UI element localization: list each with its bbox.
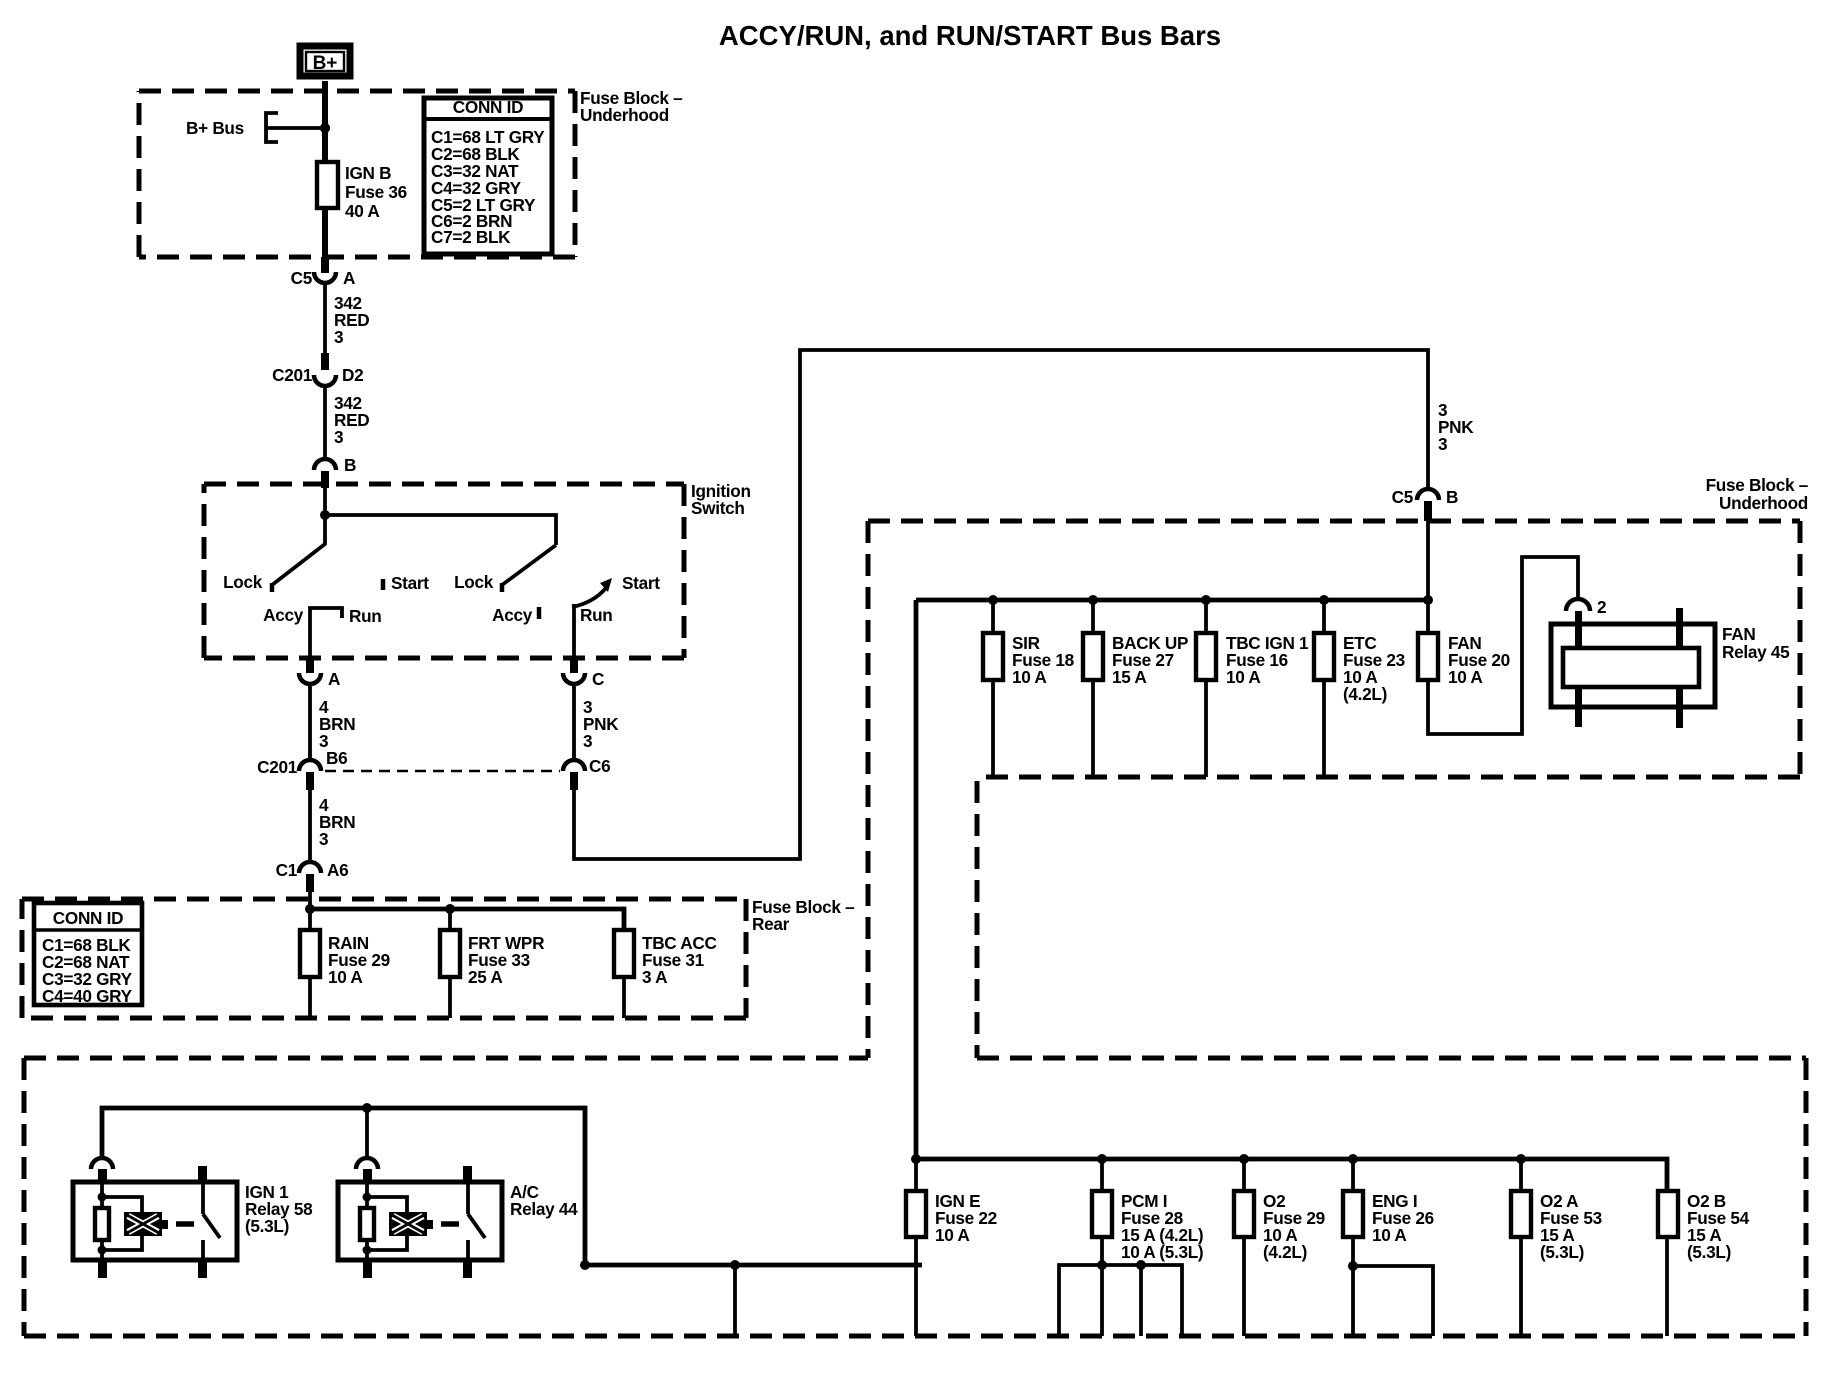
- node fuse20 tap: [1423, 595, 1433, 605]
- svg-text:2: 2: [1597, 597, 1606, 617]
- svg-text:(4.2L): (4.2L): [1263, 1242, 1307, 1262]
- svg-text:10 A: 10 A: [1448, 667, 1482, 687]
- svg-text:10 A: 10 A: [1012, 667, 1046, 687]
- wire 4 BRN 3 lower: [308, 790, 312, 862]
- connector B ignition switch: [314, 455, 356, 488]
- svg-text:Relay 45: Relay 45: [1722, 642, 1790, 662]
- svg-text:3 A: 3 A: [642, 967, 667, 987]
- svg-text:10 A (5.3L): 10 A (5.3L): [1121, 1242, 1203, 1262]
- svg-text:Run: Run: [580, 605, 613, 625]
- Lock terminal 2: [500, 583, 505, 592]
- node eng tap: [1348, 1154, 1358, 1164]
- svg-text:B: B: [344, 455, 356, 475]
- wire Run to C: [572, 604, 576, 658]
- svg-text:D2: D2: [342, 365, 363, 385]
- C201 connector dashed line: [325, 770, 560, 773]
- node switch common: [320, 510, 330, 520]
- svg-text:10 A: 10 A: [328, 967, 362, 987]
- wire 3 PNK 3: [572, 685, 576, 759]
- svg-text:Run: Run: [349, 606, 382, 626]
- svg-text:3: 3: [334, 327, 343, 347]
- fuse 20 FAN: [1418, 600, 1510, 687]
- CONN ID table (rear): [34, 903, 142, 1006]
- fuse 29 O2: [1234, 1159, 1325, 1336]
- fuse 16 TBC IGN 1: [1196, 600, 1309, 777]
- label Fuse Block - Rear: [752, 897, 855, 934]
- CONN ID table (underhood): [424, 97, 552, 254]
- svg-text:(4.2L): (4.2L): [1343, 684, 1387, 704]
- node fuse18 tap: [988, 595, 998, 605]
- ignition switch box: [204, 484, 684, 658]
- switch blade 2: [502, 545, 556, 585]
- svg-text:Start: Start: [391, 573, 429, 593]
- switch blade 1: [272, 515, 325, 585]
- svg-text:Accy: Accy: [263, 605, 304, 625]
- fuse 36 IGN B: [317, 162, 407, 221]
- svg-text:25 A: 25 A: [468, 967, 502, 987]
- svg-text:10 A: 10 A: [935, 1225, 969, 1245]
- svg-text:(5.3L): (5.3L): [245, 1216, 289, 1236]
- svg-text:Rear: Rear: [752, 914, 790, 934]
- fuse 27 BACK UP: [1083, 600, 1188, 777]
- connector C5 pin A: [291, 257, 356, 288]
- wire 4 BRN 3: [308, 685, 312, 759]
- node rear bus mid: [445, 904, 455, 914]
- wire rear bus: [310, 909, 624, 930]
- label 3 PNK 3 (right): [1438, 400, 1474, 454]
- wire fuse36 to C5: [322, 208, 328, 256]
- svg-text:Lock: Lock: [454, 572, 494, 592]
- svg-text:3: 3: [319, 829, 328, 849]
- relay 58 IGN 1: [73, 1166, 313, 1278]
- Accy terminal 2: [537, 607, 542, 619]
- Lock terminal 1: [270, 583, 275, 592]
- svg-text:A: A: [328, 669, 340, 689]
- wire relay bus: [102, 1108, 585, 1265]
- Accy-Run link 1: [310, 608, 342, 658]
- node lower bus drop: [730, 1260, 740, 1270]
- connector C1 pin A6: [276, 860, 349, 892]
- connector C201 pin D2: [272, 353, 363, 386]
- svg-text:IGN B: IGN B: [345, 163, 391, 183]
- svg-text:3: 3: [583, 731, 592, 751]
- svg-text:C: C: [592, 669, 604, 689]
- fuse 23 ETC: [1314, 600, 1405, 777]
- node o2 tap: [1239, 1154, 1249, 1164]
- wire C5B into block: [1426, 521, 1430, 600]
- wire B+ bus: [266, 126, 322, 130]
- fuse 22 IGN E: [906, 1159, 997, 1336]
- svg-text:A6: A6: [327, 860, 348, 880]
- relay 45 FAN: [1551, 608, 1790, 728]
- svg-text:Relay 44: Relay 44: [510, 1199, 578, 1219]
- svg-text:A: A: [343, 268, 355, 288]
- connector arc relay44: [356, 1158, 378, 1169]
- wire fan fuse to relay: [1428, 557, 1578, 734]
- label Ignition Switch: [691, 481, 751, 518]
- wire AC branch: [365, 1108, 369, 1157]
- svg-text:Underhood: Underhood: [1719, 493, 1808, 513]
- svg-text:C5: C5: [1392, 487, 1414, 507]
- svg-text:C1: C1: [276, 860, 298, 880]
- svg-text:Switch: Switch: [691, 498, 745, 518]
- fuse 33 FRT WPR: [440, 909, 545, 1018]
- wire 342 RED: [323, 284, 327, 353]
- svg-text:Accy: Accy: [492, 605, 533, 625]
- svg-text:3: 3: [1438, 434, 1447, 454]
- relay 44 A/C: [338, 1166, 578, 1278]
- node fuse23 tap: [1319, 595, 1329, 605]
- node o2a tap: [1516, 1154, 1526, 1164]
- wire underhood bus: [916, 598, 1428, 603]
- wire eng i branch: [1348, 1261, 1433, 1336]
- svg-text:C7=2 BLK: C7=2 BLK: [431, 227, 511, 247]
- node rear bus left: [305, 904, 315, 914]
- connector 2 fan relay: [1566, 597, 1606, 617]
- svg-text:CONN ID: CONN ID: [453, 97, 523, 117]
- connector C below switch: [563, 658, 604, 689]
- svg-text:40 A: 40 A: [345, 201, 379, 221]
- Start arrow 2: [572, 588, 606, 607]
- svg-text:FAN: FAN: [1722, 624, 1755, 644]
- label Fuse Block - Underhood (top-left): [580, 88, 683, 125]
- fuse 29 RAIN: [300, 909, 390, 1018]
- svg-text:Fuse 36: Fuse 36: [345, 182, 407, 202]
- svg-text:B+ Bus: B+ Bus: [186, 118, 244, 138]
- connector arc relay58: [91, 1158, 113, 1169]
- connector A below switch: [299, 658, 340, 689]
- svg-text:10 A: 10 A: [1226, 667, 1260, 687]
- fuse block rear box: [22, 899, 746, 1018]
- svg-text:3: 3: [334, 427, 343, 447]
- Start terminal 1: [381, 579, 386, 590]
- fuse 53 O2 A: [1511, 1159, 1602, 1336]
- fuse block underhood box (right): [868, 521, 1800, 1058]
- node pcm tap: [1097, 1154, 1107, 1164]
- svg-text:C5: C5: [291, 268, 313, 288]
- wire A6 into rear block: [308, 892, 312, 909]
- svg-text:B: B: [1446, 487, 1458, 507]
- svg-text:ACCY/RUN, and RUN/START Bus Ba: ACCY/RUN, and RUN/START Bus Bars: [719, 20, 1221, 51]
- fuse 26 ENG I: [1343, 1159, 1434, 1336]
- svg-text:CONN ID: CONN ID: [53, 908, 123, 928]
- node relay bus: [362, 1103, 372, 1113]
- fuse 54 O2 B: [1658, 1191, 1750, 1336]
- connector C5 pin B (right): [1392, 487, 1459, 521]
- svg-text:Start: Start: [622, 573, 660, 593]
- wire lower bus: [585, 1263, 922, 1268]
- node fuse27 tap: [1088, 595, 1098, 605]
- fuse block underhood box (top-left): [139, 91, 575, 257]
- middle connector box dashed: [977, 781, 1806, 1336]
- fuse 28 PCM I: [1092, 1159, 1203, 1336]
- wire drop to edge: [733, 1265, 737, 1336]
- svg-text:C6: C6: [589, 756, 610, 776]
- wire B+ feed: [322, 81, 328, 163]
- node lower bus left: [580, 1260, 590, 1270]
- wire B into switch: [323, 488, 327, 515]
- wire 342 RED 2: [323, 386, 327, 457]
- connector C201 pin C6: [563, 756, 610, 790]
- wire pcm pins: [1059, 1260, 1182, 1336]
- wire switch bus: [325, 515, 556, 545]
- svg-text:B+: B+: [313, 53, 338, 74]
- fuse 18 SIR: [983, 600, 1075, 777]
- node fuse16 tap: [1201, 595, 1211, 605]
- svg-text:Underhood: Underhood: [580, 105, 669, 125]
- wire C6 run to right: [574, 350, 1428, 859]
- label Fuse Block - Underhood (right): [1706, 475, 1809, 513]
- svg-text:Fuse Block –: Fuse Block –: [1706, 475, 1809, 495]
- fuse 31 TBC ACC: [614, 930, 717, 1018]
- svg-text:15 A: 15 A: [1112, 667, 1146, 687]
- battery B+ terminal: [300, 46, 350, 76]
- node B+ bus junction: [320, 123, 330, 133]
- svg-text:C201: C201: [257, 757, 298, 777]
- svg-text:C201: C201: [272, 365, 313, 385]
- svg-text:C4=40 GRY: C4=40 GRY: [42, 986, 133, 1006]
- node ign e top: [911, 1154, 921, 1164]
- bottom box dashed: [24, 1058, 1806, 1336]
- svg-text:(5.3L): (5.3L): [1687, 1242, 1731, 1262]
- svg-text:(5.3L): (5.3L): [1540, 1242, 1584, 1262]
- wire bottom bus: [916, 1159, 1667, 1191]
- svg-text:10 A: 10 A: [1372, 1225, 1406, 1245]
- wire main riser: [914, 600, 919, 1159]
- svg-text:Lock: Lock: [223, 572, 263, 592]
- B+ Bus bracket: [266, 113, 278, 142]
- svg-text:B6: B6: [326, 748, 347, 768]
- connector C201 pin B6: [257, 748, 347, 790]
